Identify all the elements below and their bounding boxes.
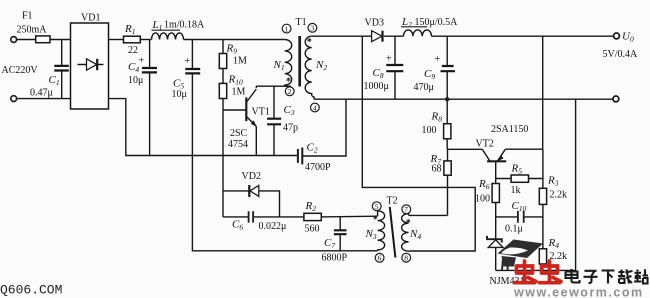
winding N3 — [365, 211, 385, 251]
svg-text:C7: C7 — [324, 237, 335, 250]
svg-text:+: + — [435, 54, 441, 65]
resistor R4 — [539, 237, 567, 270]
svg-text:1m/0.18A: 1m/0.18A — [164, 20, 205, 31]
svg-text:+: + — [139, 56, 145, 67]
svg-text:4: 4 — [313, 103, 317, 112]
bottom wire NJM431 anode to 0V drop — [496, 99, 576, 270]
svg-text:6: 6 — [378, 254, 382, 263]
inductor L2 — [401, 16, 458, 36]
svg-text:R10: R10 — [228, 74, 243, 87]
wire VT1 collector to T1 pin 2 — [256, 85, 291, 87]
capacitor C10 — [496, 200, 543, 235]
fuse F1 — [17, 11, 51, 43]
junction C9/0V — [445, 97, 449, 101]
svg-text:VT2: VT2 — [476, 139, 494, 150]
primary return wire to T2 pin 6 — [192, 156, 377, 251]
svg-text:10μ: 10μ — [172, 89, 187, 100]
svg-text:2: 2 — [288, 87, 292, 96]
svg-text:F1: F1 — [22, 11, 33, 22]
svg-text:R5: R5 — [511, 163, 523, 176]
watermark eeworm logo cap — [498, 240, 544, 271]
resistor R2 — [304, 200, 377, 235]
pin 2 — [285, 87, 294, 96]
resistor R5 — [496, 163, 543, 197]
svg-text:+: + — [386, 54, 392, 65]
svg-text:250mA: 250mA — [17, 25, 48, 36]
input terminal top — [11, 37, 17, 43]
resistor R7 — [430, 149, 452, 215]
capacitor C9 — [414, 36, 456, 99]
polarity dot N3 — [373, 215, 378, 226]
svg-text:*: * — [373, 215, 378, 226]
svg-text:2.2k: 2.2k — [550, 251, 568, 262]
svg-text:100: 100 — [422, 125, 437, 136]
wire VD1 to R1 — [109, 39, 124, 41]
output terminal 0V — [613, 96, 619, 102]
transistor VT1 2SC4754 — [228, 86, 270, 155]
svg-text:U0: U0 — [622, 31, 634, 44]
svg-text:1: 1 — [285, 24, 289, 33]
capacitor C2 — [298, 99, 346, 173]
resistor R3 — [539, 149, 567, 249]
svg-text:AC220V: AC220V — [2, 65, 39, 76]
wire AC input bottom — [17, 98, 71, 100]
svg-text:1M: 1M — [233, 56, 247, 67]
wire L1 to T1 primary top rail — [184, 39, 285, 41]
svg-text:6800P: 6800P — [322, 253, 348, 264]
resistor R1 — [124, 23, 141, 56]
primary ground rail — [109, 99, 298, 156]
svg-text:R2: R2 — [305, 200, 317, 213]
wire R1 to L1 — [140, 39, 151, 41]
svg-text:4754: 4754 — [228, 139, 248, 150]
svg-text:T1: T1 — [296, 17, 307, 28]
pin 5 — [372, 202, 381, 211]
transistor VT2 2SA1150 — [476, 124, 543, 184]
svg-text:4700P: 4700P — [305, 162, 331, 173]
pin 3 — [308, 23, 317, 32]
svg-text:0.47μ: 0.47μ — [30, 88, 53, 99]
svg-text:N2: N2 — [315, 59, 327, 72]
svg-text:T2: T2 — [387, 196, 398, 207]
resistor R9 — [219, 40, 247, 84]
svg-text:2.2k: 2.2k — [550, 190, 568, 201]
svg-text:VT1: VT1 — [252, 107, 270, 118]
secondary top rail — [312, 35, 614, 37]
resistor R8 — [422, 99, 451, 149]
inductor L1 — [152, 19, 206, 40]
diode VD3 — [365, 18, 384, 42]
winding N1 — [273, 40, 292, 87]
capacitor C6 — [223, 211, 304, 232]
wire +5V down to VT2 emitter — [542, 36, 544, 149]
wire VD2 branch left column — [223, 191, 280, 217]
watermark Q606.COM — [0, 283, 62, 298]
svg-text:22: 22 — [128, 45, 138, 56]
svg-text:10μ: 10μ — [128, 75, 143, 86]
capacitor C4 — [128, 40, 157, 156]
svg-text:C3: C3 — [284, 104, 295, 117]
svg-text:N4: N4 — [409, 228, 421, 241]
svg-text:3: 3 — [310, 24, 314, 33]
svg-text:VD1: VD1 — [81, 13, 100, 24]
wire AC input top — [17, 39, 71, 41]
svg-text:68: 68 — [432, 164, 442, 175]
svg-text:0.022μ: 0.022μ — [259, 221, 287, 232]
svg-text:C1: C1 — [49, 74, 60, 87]
svg-text:R6: R6 — [478, 178, 490, 191]
svg-text:47p: 47p — [283, 123, 298, 134]
polarity dot N4 — [406, 218, 411, 229]
wire T2 pin 7 to R7 — [409, 214, 448, 216]
resistor R6 — [475, 178, 499, 236]
polarity dot N1 — [286, 77, 291, 88]
pin 8 — [402, 253, 411, 262]
pin 7 — [402, 205, 411, 214]
watermark eeworm site name (vector CJK: dian zi xia zai zhan) — [566, 269, 649, 284]
svg-text:C9: C9 — [424, 68, 435, 81]
input terminal bottom — [11, 96, 17, 102]
wire R8/R7 node to VT2 collector — [447, 148, 482, 150]
node AC220V — [2, 65, 39, 76]
svg-text:R4: R4 — [548, 237, 560, 250]
svg-text:0.1μ: 0.1μ — [505, 224, 523, 235]
svg-text:R9: R9 — [226, 43, 238, 56]
svg-text:5: 5 — [375, 202, 379, 211]
secondary 0V line — [314, 98, 613, 100]
winding N4 — [402, 214, 422, 252]
svg-text:560: 560 — [305, 224, 320, 235]
svg-text:N3: N3 — [365, 228, 377, 241]
svg-text:C6: C6 — [232, 219, 243, 232]
transformer T1 core — [296, 17, 307, 87]
svg-text:R1: R1 — [124, 23, 135, 36]
capacitor C7 — [322, 217, 348, 264]
svg-text:7: 7 — [404, 205, 408, 214]
pin 6 — [375, 253, 384, 262]
resistor R10 — [219, 74, 245, 99]
svg-text:*: * — [406, 218, 411, 229]
svg-text:2SA1150: 2SA1150 — [491, 124, 528, 135]
capacitor C1 — [30, 40, 69, 99]
svg-text:VD2: VD2 — [242, 171, 261, 182]
svg-text:www.eeworm.com: www.eeworm.com — [513, 286, 644, 298]
svg-text:1000μ: 1000μ — [364, 81, 389, 92]
pin 1 — [282, 24, 291, 33]
wire base of VT1 — [223, 109, 246, 111]
svg-text:*: * — [307, 37, 312, 48]
capacitor C8 — [364, 36, 404, 99]
winding N2 — [305, 36, 327, 99]
svg-text:1k: 1k — [511, 185, 521, 196]
bridge rectifier VD1 — [71, 13, 109, 110]
svg-text:N1: N1 — [273, 59, 285, 72]
watermark eeworm red text (vector CJK: chong chong) — [515, 261, 562, 283]
svg-text:C2: C2 — [307, 142, 318, 155]
diode VD2 — [242, 171, 261, 197]
transformer T2 core — [387, 196, 398, 258]
shunt regulator NJM431L — [487, 236, 531, 287]
output terminal U0 — [603, 31, 639, 61]
capacitor C3 — [267, 86, 298, 155]
svg-text:*: * — [286, 77, 291, 88]
pin 4 — [311, 103, 320, 112]
svg-text:1M: 1M — [232, 87, 246, 98]
svg-text:VD3: VD3 — [365, 18, 384, 29]
watermark eeworm url — [513, 286, 644, 298]
svg-text:470μ: 470μ — [414, 82, 434, 93]
svg-text:C10: C10 — [512, 200, 527, 213]
svg-text:8: 8 — [404, 254, 408, 263]
svg-text:R3: R3 — [547, 175, 559, 188]
polarity dot N2 — [307, 37, 312, 48]
wire R10 down through rail to C6 node — [222, 99, 224, 217]
capacitor C5 — [172, 40, 201, 156]
svg-text:5V/0.4A: 5V/0.4A — [603, 49, 639, 60]
svg-text:C8: C8 — [373, 67, 384, 80]
svg-text:+: + — [185, 56, 191, 67]
svg-text:R8: R8 — [431, 111, 443, 124]
svg-text:Q606.COM: Q606.COM — [0, 283, 62, 298]
wire N2 top node down to N4 return — [362, 36, 475, 251]
svg-text:2SC: 2SC — [230, 128, 248, 139]
svg-text:100: 100 — [475, 194, 490, 205]
